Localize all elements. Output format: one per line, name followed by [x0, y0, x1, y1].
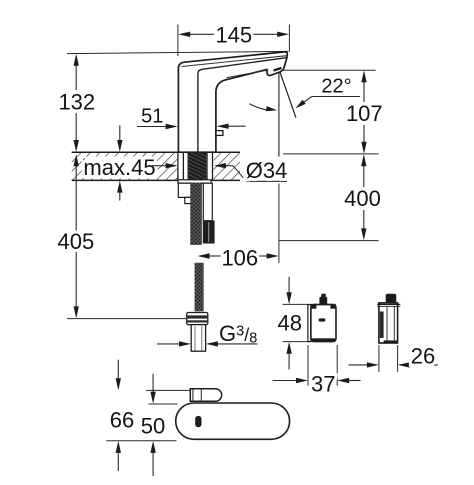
svg-text:132: 132 [58, 89, 95, 114]
svg-text:106: 106 [221, 245, 258, 270]
svg-text:51: 51 [141, 106, 163, 128]
svg-text:405: 405 [58, 229, 95, 254]
svg-text:66: 66 [110, 408, 134, 433]
svg-text:Ø34: Ø34 [246, 158, 288, 183]
svg-text:26: 26 [411, 343, 435, 368]
svg-text:50: 50 [141, 413, 165, 438]
svg-text:37: 37 [311, 371, 335, 396]
svg-text:22°: 22° [321, 76, 351, 98]
svg-text:400: 400 [344, 186, 381, 211]
svg-text:48: 48 [278, 310, 302, 335]
svg-text:G3/8: G3/8 [219, 321, 257, 347]
svg-text:107: 107 [346, 101, 383, 126]
svg-text:145: 145 [215, 22, 252, 47]
svg-text:max.45: max.45 [83, 155, 155, 180]
